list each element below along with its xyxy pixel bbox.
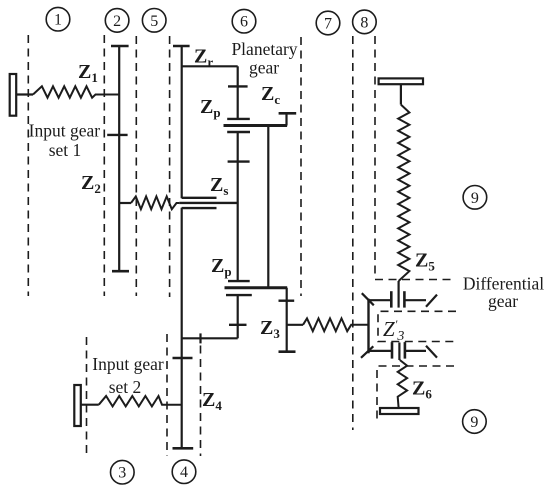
planet mid mesh tick (228, 160, 250, 162)
spring Z2 (131, 196, 179, 209)
input flange 1 (ground) (10, 74, 17, 116)
circled number 7 (316, 11, 340, 35)
output flange bottom (Z6) (380, 408, 419, 414)
carrier Zc stub (285, 113, 287, 125)
axis dashed line 2 (103, 35, 105, 296)
spring Z6 (398, 360, 407, 408)
spring Z4 (99, 396, 182, 406)
carrier wide bar lower (225, 286, 288, 289)
carrier Zc top T-bar (279, 112, 297, 115)
differential top axle right (404, 299, 426, 301)
circled number 6 (232, 9, 256, 33)
bevel gear diagonal top-left (362, 293, 374, 305)
input flange 2 (ground) (74, 385, 81, 426)
svg-text:9: 9 (470, 414, 478, 431)
shaft 2 vertical (118, 46, 120, 271)
spring Z1 (33, 86, 119, 97)
wire Z3 to spring (287, 324, 303, 326)
svg-text:8: 8 (360, 14, 368, 31)
svg-text:2: 2 (113, 13, 121, 30)
ring gear / shaft 4 main vertical (181, 46, 183, 198)
svg-text:6: 6 (240, 14, 248, 31)
shaft 2 bottom T-bar (112, 270, 129, 273)
svg-text:5: 5 (150, 13, 158, 30)
svg-text:gear: gear (249, 58, 279, 78)
svg-text:3: 3 (118, 465, 126, 482)
Z3' dashed box (378, 311, 456, 341)
differential bottom mesh bar right (404, 342, 407, 359)
Z6 dashed box (377, 366, 454, 422)
axis dashed line right of 8 (374, 36, 376, 278)
gear Z1 mesh tick on shaft 2 (107, 134, 127, 136)
circled number 5 (142, 8, 166, 32)
bottom horizontal to shaft 4 (182, 337, 238, 339)
differential bottom mesh bar left (391, 342, 394, 359)
dashed box bottom above differential (375, 279, 453, 281)
spring Z3-differential (303, 318, 369, 331)
carrier wide bar upper (224, 124, 288, 127)
gear Z3 bottom T-bar (279, 350, 296, 353)
differential top mesh bar right (403, 291, 406, 307)
differential bottom axle right (405, 350, 426, 352)
wire flange2 to spring Z4 (81, 404, 99, 406)
differential bottom axle left (369, 350, 392, 352)
svg-text:7: 7 (324, 16, 332, 33)
planet shaft lower segment (237, 295, 239, 338)
bevel gear diagonal bottom-left (361, 346, 373, 358)
wire flange to spring Z1 (16, 93, 33, 95)
circled number 4 (172, 460, 196, 484)
circled number 3 (111, 460, 135, 484)
carrier vertical (267, 126, 269, 288)
planet upper plate tick 2 (227, 131, 250, 133)
ring-planet mesh tick (228, 85, 248, 87)
sun gear Zs shaft middle line (179, 202, 237, 204)
svg-text:1: 1 (54, 12, 62, 29)
wire shaft2 to spring Z2 (119, 202, 131, 204)
bottom-left axis dashed line (86, 337, 88, 456)
planet shaft upper segment (237, 66, 239, 118)
planet shaft middle segment (237, 132, 239, 281)
sun gear Zs mesh top line (182, 197, 217, 199)
spring Z5 (398, 105, 409, 281)
circled number 9 upper (463, 186, 487, 210)
circled number 9 lower (463, 410, 487, 434)
shaft 2 top T-bar (111, 45, 129, 48)
gear Z3 shaft (286, 288, 288, 353)
svg-text:gear: gear (488, 291, 518, 311)
svg-text:Planetary: Planetary (231, 39, 297, 59)
planet lower plate tick (228, 280, 250, 282)
gear Z3 mesh tick (279, 300, 295, 302)
axis dashed line between 5 and 6 (169, 36, 171, 297)
circled number 1 (46, 7, 70, 31)
differential carrier bracket vertical (367, 299, 369, 354)
stub spring Z5 to differential pinion (398, 281, 400, 308)
bevel gear diagonal bottom-right (426, 346, 437, 358)
axis dashed line between 7 and 8 (352, 36, 354, 430)
svg-text:Input gear: Input gear (29, 121, 101, 141)
gear Z4 mesh vertical tick (199, 333, 201, 343)
svg-text:9: 9 (471, 190, 479, 207)
stub differential to spring Z6 (398, 343, 400, 361)
lower shaft mesh tick (229, 324, 247, 326)
differential top mesh bar left (390, 291, 393, 307)
bevel gear diagonal top-right (426, 295, 437, 307)
shaft 4 bottom T-bar (173, 447, 194, 450)
svg-text:Input gear: Input gear (92, 354, 164, 374)
output flange top (Z5) (379, 78, 423, 84)
svg-text:set 2: set 2 (109, 377, 142, 397)
planet upper plate tick (227, 118, 250, 120)
stub flange to spring Z5 (400, 84, 402, 104)
ring gear top T-bar (173, 45, 190, 48)
gear Z4 mesh tick on shaft 4 (173, 357, 193, 359)
axis dashed line 1 (27, 35, 29, 296)
axis dashed line left of 4 (166, 334, 168, 456)
axis dashed line right of 4 (200, 346, 202, 457)
svg-text:4: 4 (180, 464, 188, 481)
differential top axle left (369, 299, 391, 301)
axis dashed line between 6 and 7 (300, 37, 302, 296)
planet lower plate tick 2 (226, 294, 252, 296)
svg-text:set 1: set 1 (49, 140, 82, 160)
sun gear Zs mesh bottom line (182, 207, 217, 209)
circled number 2 (105, 9, 129, 33)
circled number 8 (353, 10, 377, 34)
axis dashed line between 2 and 5 (135, 36, 137, 296)
ring gear Zr horizontal (182, 65, 238, 67)
